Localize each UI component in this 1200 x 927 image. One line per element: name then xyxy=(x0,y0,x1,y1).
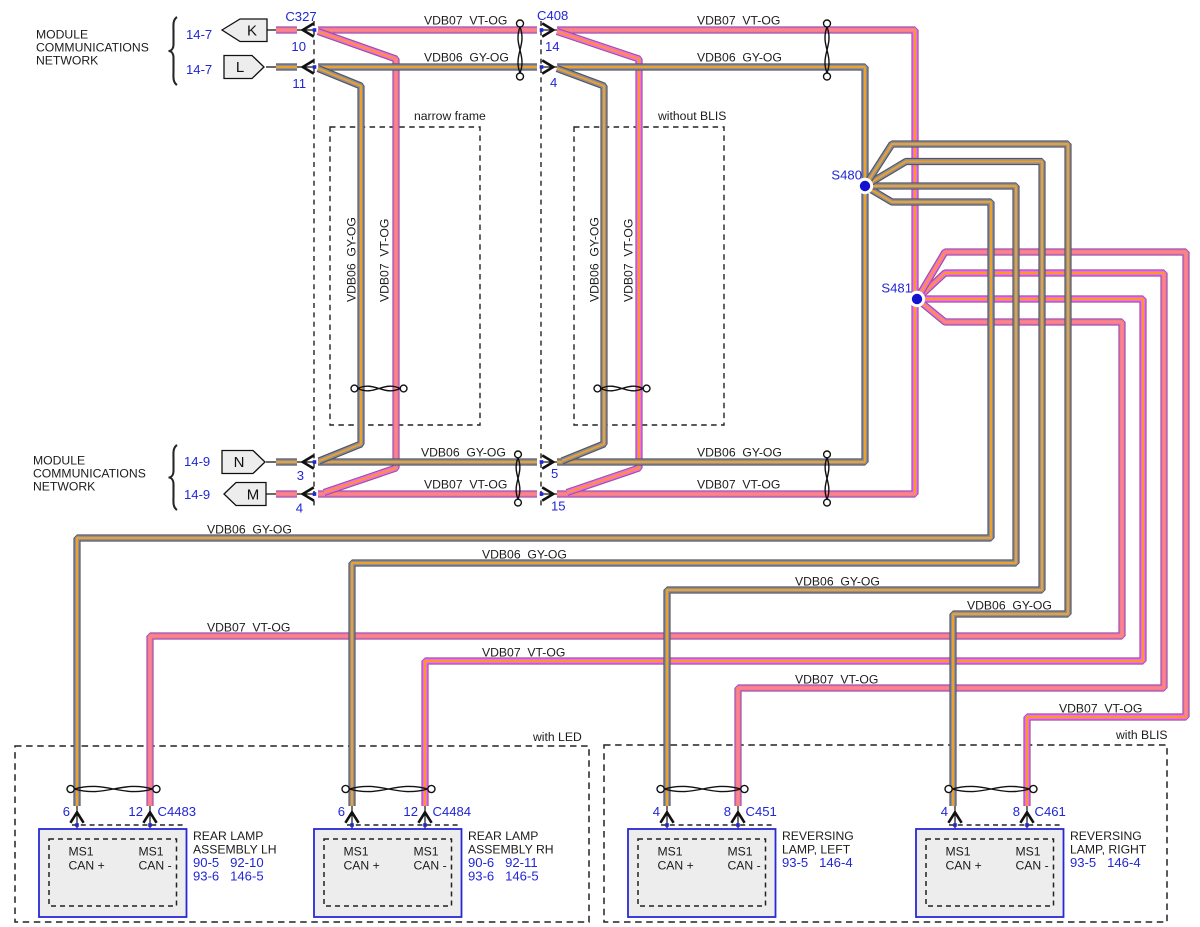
twisted-pair symbol reversing lamp left pair xyxy=(657,785,748,792)
lead line C327 pin 10 xyxy=(266,29,315,31)
svg-text:14-9: 14-9 xyxy=(184,454,210,469)
svg-text:C327: C327 xyxy=(285,9,316,24)
svg-text:COMMUNICATIONS: COMMUNICATIONS xyxy=(33,467,146,481)
twisted-pair symbol top pair left xyxy=(517,20,524,80)
svg-text:6: 6 xyxy=(338,804,345,819)
lead line C408 pin 15 xyxy=(543,493,558,495)
svg-text:C461: C461 xyxy=(1035,804,1066,819)
svg-text:93-6 146-5: 93-6 146-5 xyxy=(468,869,539,884)
wire VDB06 GY-OG S480 to rear lamp LH pin6 xyxy=(77,186,991,806)
svg-text:VDB06 GY-OG: VDB06 GY-OG xyxy=(588,217,602,302)
component box REAR LAMP ASSEMBLY LH xyxy=(39,825,187,917)
svg-text:C4483: C4483 xyxy=(158,804,197,819)
svg-text:VDB06 GY-OG: VDB06 GY-OG xyxy=(345,217,359,302)
twisted-pair symbol narrow frame pair xyxy=(351,385,407,392)
component label REVERSING LAMP RIGHT xyxy=(1070,829,1147,870)
component label REVERSING LAMP LEFT xyxy=(782,829,854,870)
wire VDB06 GY-OG C408 pin4 to splice S480 to C408 pin5 xyxy=(557,67,865,462)
svg-text:VDB07 VT-OG: VDB07 VT-OG xyxy=(795,673,878,687)
wire VDB07 VT-OG without BLIS branch xyxy=(557,32,639,493)
terminal arrow C408 pin 15 xyxy=(542,487,553,500)
pin lead C461 pin8 xyxy=(1026,806,1028,843)
svg-text:8: 8 xyxy=(724,804,731,819)
lead line C408 pin 5 xyxy=(543,461,558,463)
svg-text:CAN -: CAN - xyxy=(414,859,447,873)
svg-text:14-9: 14-9 xyxy=(184,487,210,502)
svg-text:REAR LAMP: REAR LAMP xyxy=(468,829,538,843)
splice S481 xyxy=(909,291,925,307)
svg-text:VDB07 VT-OG: VDB07 VT-OG xyxy=(1059,702,1142,716)
svg-text:5: 5 xyxy=(551,466,558,481)
wire VDB07 VT-OG C408 pin14 to splice S481 to C408 pin15 xyxy=(557,30,915,494)
svg-text:REAR LAMP: REAR LAMP xyxy=(193,829,263,843)
twisted-pair symbol rear lamp LH pair xyxy=(67,785,160,792)
svg-text:narrow frame: narrow frame xyxy=(414,109,486,123)
svg-text:CAN -: CAN - xyxy=(1016,859,1049,873)
wire VDB07 VT-OG S481 to rear lamp RH pin12 xyxy=(425,299,1143,806)
terminal arrow C327 pin 10 xyxy=(303,23,314,36)
svg-text:VDB07 VT-OG: VDB07 VT-OG xyxy=(424,478,507,492)
svg-text:10: 10 xyxy=(291,39,306,54)
svg-text:VDB06 GY-OG: VDB06 GY-OG xyxy=(424,51,509,65)
pin lead C451 pin8 xyxy=(737,806,739,843)
lead line C327 pin 4 xyxy=(266,493,315,495)
svg-text:VDB06 GY-OG: VDB06 GY-OG xyxy=(421,446,506,460)
svg-text:14-7: 14-7 xyxy=(186,62,212,77)
wire VDB07 VT-OG C327 pin10 to C408 pin14 xyxy=(318,26,537,33)
svg-text:NETWORK: NETWORK xyxy=(36,54,98,68)
svg-text:MODULE: MODULE xyxy=(33,454,85,468)
terminal arrow C4483 pin12 xyxy=(143,812,156,823)
twisted-pair symbol top pair right xyxy=(824,20,831,80)
twisted-pair symbol reversing lamp right pair xyxy=(945,785,1037,792)
C408 connector dashed line xyxy=(540,21,542,506)
with BLIS variant box xyxy=(604,745,1167,922)
svg-text:CAN -: CAN - xyxy=(139,859,172,873)
wire VDB06 GY-OG without BLIS branch xyxy=(557,69,604,462)
with LED variant box xyxy=(15,746,589,922)
twisted-pair symbol without BLIS pair xyxy=(594,385,650,392)
splice S480 xyxy=(857,178,873,194)
svg-text:S480: S480 xyxy=(831,168,862,183)
pin lead C4483 pin12 xyxy=(149,806,151,843)
terminal arrow C461 pin8 xyxy=(1020,812,1033,823)
svg-text:VDB07 VT-OG: VDB07 VT-OG xyxy=(482,646,565,660)
lead line C408 pin 14 xyxy=(543,29,558,31)
svg-text:4: 4 xyxy=(941,804,948,819)
pin lead C461 pin4 xyxy=(954,806,956,843)
svg-text:4: 4 xyxy=(653,804,660,819)
svg-text:MS1: MS1 xyxy=(344,845,369,859)
terminal arrow C4484 pin12 xyxy=(418,812,431,823)
wire VDB06 GY-OG C327 pin11 to C408 pin4 xyxy=(318,63,537,70)
terminal arrow C451 pin8 xyxy=(731,812,744,823)
pin lead C4484 pin6 xyxy=(351,806,353,843)
svg-text:REVERSING: REVERSING xyxy=(1070,829,1142,843)
svg-text:15: 15 xyxy=(551,499,566,514)
brace module communications network top xyxy=(169,17,178,85)
wire VDB06 GY-OG stub at L xyxy=(276,63,297,70)
svg-text:N: N xyxy=(234,454,245,471)
component box REVERSING LAMP RIGHT xyxy=(916,825,1064,917)
svg-text:MS1: MS1 xyxy=(728,845,753,859)
wire VDB06 GY-OG S480 to reversing lamp left pin4 xyxy=(667,162,1042,807)
svg-text:NETWORK: NETWORK xyxy=(33,480,95,494)
terminal arrow C327 pin 4 xyxy=(303,487,314,500)
svg-text:S481: S481 xyxy=(881,281,912,296)
pin lead C451 pin4 xyxy=(666,806,668,843)
svg-text:VDB07 VT-OG: VDB07 VT-OG xyxy=(424,14,507,28)
svg-text:MS1: MS1 xyxy=(69,845,94,859)
svg-text:MODULE: MODULE xyxy=(36,28,88,42)
lead line C327 pin 3 xyxy=(266,461,315,463)
label MODULE COMMUNICATIONS NETWORK top xyxy=(36,28,149,68)
wire VDB07 VT-OG stub at K xyxy=(276,26,297,33)
svg-text:8: 8 xyxy=(1013,804,1020,819)
terminal arrow C408 pin 4 xyxy=(542,60,553,73)
svg-text:VDB06 GY-OG: VDB06 GY-OG xyxy=(795,575,880,589)
svg-text:without BLIS: without BLIS xyxy=(657,109,726,123)
svg-text:VDB06 GY-OG: VDB06 GY-OG xyxy=(697,446,782,460)
connector terminal N xyxy=(222,451,265,474)
wire VDB06 GY-OG C408 pin5 to N xyxy=(318,458,537,465)
svg-text:VDB07 VT-OG: VDB07 VT-OG xyxy=(378,219,392,302)
svg-text:C408: C408 xyxy=(537,8,568,23)
svg-text:93-6 146-5: 93-6 146-5 xyxy=(193,869,264,884)
svg-text:MS1: MS1 xyxy=(658,845,683,859)
svg-text:C451: C451 xyxy=(746,804,777,819)
terminal arrow C4483 pin6 xyxy=(70,812,83,823)
wire VDB06 GY-OG S480 to rear lamp RH pin6 xyxy=(352,186,1016,806)
svg-text:6: 6 xyxy=(63,804,70,819)
svg-text:CAN +: CAN + xyxy=(344,859,380,873)
svg-text:12: 12 xyxy=(128,804,143,819)
wire VDB07 VT-OG narrow frame branch xyxy=(318,32,396,493)
svg-text:MS1: MS1 xyxy=(139,845,164,859)
svg-text:C4484: C4484 xyxy=(433,804,472,819)
terminal arrow C4484 pin6 xyxy=(345,812,358,823)
twisted-pair symbol bottom pair left xyxy=(515,451,522,506)
svg-text:VDB07 VT-OG: VDB07 VT-OG xyxy=(697,478,780,492)
wire VDB06 GY-OG narrow frame branch xyxy=(318,69,361,462)
svg-text:VDB07 VT-OG: VDB07 VT-OG xyxy=(697,14,780,28)
svg-text:4: 4 xyxy=(296,501,303,516)
connector terminal L xyxy=(224,56,264,79)
svg-text:with BLIS: with BLIS xyxy=(1115,728,1167,742)
label MODULE COMMUNICATIONS NETWORK bottom xyxy=(33,454,146,494)
wire VDB06 GY-OG S480 to reversing lamp right pin4 xyxy=(865,144,1068,806)
terminal arrow C327 pin 11 xyxy=(303,60,314,73)
component box REAR LAMP ASSEMBLY RH xyxy=(314,825,462,917)
pin lead C4484 pin12 xyxy=(424,806,426,843)
twisted-pair symbol rear lamp RH pair xyxy=(342,785,435,792)
connector terminal K xyxy=(222,19,267,42)
svg-text:3: 3 xyxy=(297,468,304,483)
svg-text:11: 11 xyxy=(292,76,306,91)
svg-text:MS1: MS1 xyxy=(946,845,971,859)
terminal arrow C451 pin4 xyxy=(660,812,673,823)
wire VDB07 VT-OG stub at M xyxy=(276,490,297,497)
terminal arrow C408 pin 14 xyxy=(542,23,553,36)
svg-text:VDB06 GY-OG: VDB06 GY-OG xyxy=(482,548,567,562)
svg-text:14: 14 xyxy=(545,39,560,54)
svg-text:93-5 146-4: 93-5 146-4 xyxy=(782,855,853,870)
svg-text:CAN +: CAN + xyxy=(658,859,694,873)
svg-text:COMMUNICATIONS: COMMUNICATIONS xyxy=(36,41,149,55)
svg-text:M: M xyxy=(247,487,260,504)
component label REAR LAMP ASSEMBLY LH xyxy=(193,829,277,884)
wire VDB07 VT-OG S481 to rear lamp LH pin12 xyxy=(150,299,1122,806)
svg-text:12: 12 xyxy=(403,804,418,819)
wire VDB07 VT-OG S481 to reversing lamp right pin8 xyxy=(917,252,1186,806)
wire VDB07 VT-OG C408 pin15 to M xyxy=(318,490,537,497)
svg-text:MS1: MS1 xyxy=(414,845,439,859)
connector terminal M xyxy=(224,483,266,506)
svg-text:with LED: with LED xyxy=(532,730,582,744)
svg-text:CAN +: CAN + xyxy=(69,859,105,873)
twisted-pair symbol bottom pair right xyxy=(824,451,831,506)
svg-text:L: L xyxy=(236,59,244,76)
lead line C327 pin 11 xyxy=(266,66,315,68)
svg-text:CAN -: CAN - xyxy=(728,859,761,873)
wire VDB07 VT-OG S481 to reversing lamp left pin8 xyxy=(738,273,1164,806)
terminal arrow C408 pin 5 xyxy=(542,455,553,468)
svg-text:CAN +: CAN + xyxy=(946,859,982,873)
svg-text:VDB06 GY-OG: VDB06 GY-OG xyxy=(207,523,292,537)
without BLIS variant box xyxy=(574,127,724,425)
wire VDB06 GY-OG stub at N xyxy=(276,458,297,465)
brace module communications network bottom xyxy=(169,445,178,510)
svg-text:MS1: MS1 xyxy=(1016,845,1041,859)
svg-text:VDB07 VT-OG: VDB07 VT-OG xyxy=(622,219,636,302)
svg-text:VDB06 GY-OG: VDB06 GY-OG xyxy=(697,51,782,65)
svg-text:14-7: 14-7 xyxy=(186,27,212,42)
svg-text:4: 4 xyxy=(550,75,557,90)
C327 connector dashed line xyxy=(313,21,315,506)
narrow frame variant box xyxy=(330,127,480,425)
svg-text:VDB07 VT-OG: VDB07 VT-OG xyxy=(207,621,290,635)
component box REVERSING LAMP LEFT xyxy=(628,825,776,917)
lead line C408 pin 4 xyxy=(543,66,558,68)
terminal arrow C327 pin 3 xyxy=(303,455,314,468)
svg-text:REVERSING: REVERSING xyxy=(782,829,854,843)
svg-text:K: K xyxy=(247,23,257,40)
pin dots on connector lines xyxy=(313,28,317,32)
pin lead C4483 pin6 xyxy=(76,806,78,843)
terminal arrow C461 pin4 xyxy=(948,812,961,823)
svg-text:93-5 146-4: 93-5 146-4 xyxy=(1070,855,1141,870)
svg-text:VDB06 GY-OG: VDB06 GY-OG xyxy=(967,599,1052,613)
component label REAR LAMP ASSEMBLY RH xyxy=(468,829,554,884)
